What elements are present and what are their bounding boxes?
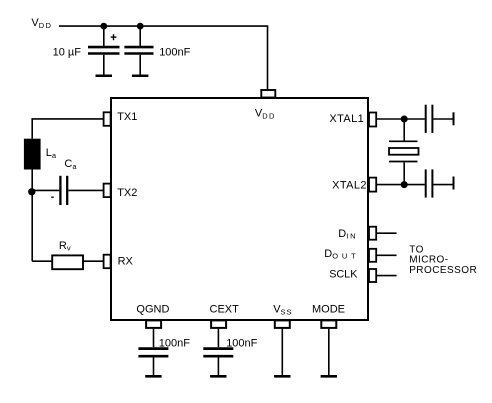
- svg-text:100nF: 100nF: [159, 47, 190, 59]
- svg-text:XTAL1: XTAL1: [329, 113, 364, 125]
- svg-text:100nF: 100nF: [226, 337, 257, 349]
- svg-text:TX2: TX2: [117, 187, 137, 199]
- svg-text:PROCESSOR: PROCESSOR: [409, 265, 477, 276]
- svg-text:MODE: MODE: [312, 304, 345, 316]
- svg-text:10 µF: 10 µF: [53, 47, 82, 59]
- svg-text:RX: RX: [118, 255, 134, 267]
- svg-text:CEXT: CEXT: [210, 304, 240, 316]
- svg-text:QGND: QGND: [136, 304, 169, 316]
- svg-text:TX1: TX1: [117, 111, 137, 123]
- svg-text:100nF: 100nF: [159, 337, 190, 349]
- svg-text:SCLK: SCLK: [329, 269, 358, 281]
- svg-text:MICRO-: MICRO-: [409, 255, 448, 266]
- svg-text:XTAL2: XTAL2: [332, 180, 367, 192]
